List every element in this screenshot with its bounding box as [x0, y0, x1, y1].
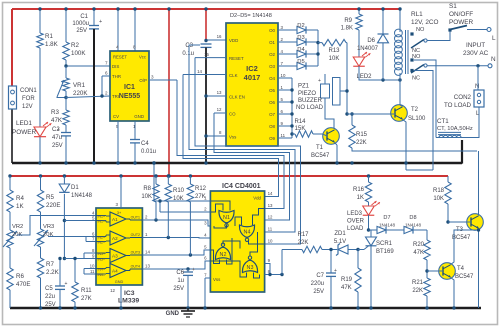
svg-text:R3: R3	[51, 109, 59, 116]
wire IC3 OUT1 to IC4 pin3	[142, 218, 210, 226]
svg-text:R6: R6	[16, 273, 24, 280]
wire D3 cathode to bus	[307, 41, 318, 43]
wire pole B to N line	[427, 64, 488, 67]
resistor R8	[141, 176, 159, 220]
svg-text:POWER: POWER	[449, 19, 474, 26]
wire CON2 L to CT1	[436, 107, 479, 138]
wire IC1 TRI from VR1 wiper	[66, 94, 110, 97]
wire IC1 THR stub	[102, 76, 110, 96]
svg-text:BUZZER: BUZZER	[298, 98, 323, 104]
wire D1 cathode column	[63, 194, 66, 260]
junction dots top rail	[38, 7, 401, 10]
wire +12V vertical feed x169	[168, 9, 170, 176]
svg-text:R5: R5	[46, 194, 54, 201]
svg-text:R20: R20	[413, 242, 425, 248]
svg-text:1K: 1K	[16, 203, 24, 210]
junction dots bottom rail	[39, 306, 190, 309]
resistor R21	[412, 269, 430, 309]
wire IC2 RESET stub	[195, 57, 226, 59]
relay contact NO-A	[410, 27, 425, 36]
wire D1 node to IC3 pin5	[64, 220, 96, 222]
wire IC2 O4-O9 bus	[278, 78, 294, 138]
wire IC3 pin10/11 stubs	[84, 269, 96, 275]
svg-text:14: 14	[197, 69, 202, 74]
wire ground riser right (CT1 secondary)	[461, 140, 463, 164]
wire VR3 wiper to IC3 pin6	[48, 236, 96, 238]
wire T3 emitter down	[478, 229, 480, 309]
svg-text:R12: R12	[195, 186, 207, 192]
wire IC2 CO stub	[214, 112, 226, 114]
svg-text:R17: R17	[297, 232, 309, 238]
svg-text:10: 10	[268, 239, 273, 244]
svg-text:RESET: RESET	[229, 56, 244, 61]
svg-text:L: L	[492, 35, 496, 42]
resistor R11	[72, 257, 92, 308]
wire T3 collector up	[478, 151, 480, 216]
svg-text:C6: C6	[176, 270, 184, 276]
wire C2 to ground	[65, 136, 67, 163]
svg-text:BC547: BC547	[455, 274, 474, 280]
svg-text:12V, 2CO: 12V, 2CO	[411, 19, 439, 26]
svg-text:CON1: CON1	[20, 88, 37, 94]
capacitor C6	[173, 267, 195, 308]
svg-text:1N4148: 1N4148	[405, 223, 422, 228]
wire coil bottom to T2 collector	[399, 75, 401, 105]
LED LED1	[12, 120, 51, 137]
wire IC2 output to D5	[278, 65, 297, 67]
svg-text:13: 13	[217, 90, 222, 95]
relay contact NO-B	[410, 54, 421, 62]
resistor R1	[37, 9, 59, 48]
svg-text:N4: N4	[244, 230, 251, 236]
svg-text:N: N	[475, 84, 479, 90]
wire NO-B to CT1	[414, 60, 436, 138]
wire D4 cathode to bus	[307, 53, 318, 55]
svg-text:12: 12	[268, 215, 273, 220]
wire IC4 pin1 from ground rail	[152, 161, 210, 201]
relay contact NC-A label	[412, 48, 420, 54]
svg-text:THR: THR	[112, 74, 121, 79]
svg-text:22K: 22K	[412, 288, 423, 294]
svg-text:T4: T4	[457, 266, 465, 272]
svg-text:O0: O0	[269, 28, 275, 33]
wire +12V mid rail (lower half)	[10, 175, 448, 177]
svg-text:Vss: Vss	[213, 277, 221, 282]
wire C4 to ground	[134, 143, 136, 163]
wire IC2 VDD stub	[204, 39, 226, 42]
wire bus V2 (IC2 CLK)	[183, 75, 279, 197]
svg-text:CLK: CLK	[229, 73, 238, 78]
svg-text:IN1–: IN1–	[98, 219, 105, 223]
svg-text:1000u: 1000u	[72, 21, 89, 27]
wire T4 base	[427, 270, 443, 272]
svg-text:2.2K: 2.2K	[46, 269, 60, 276]
resistor R4	[7, 176, 25, 212]
wire R15 to T3 collector line	[352, 148, 477, 151]
wire pole A to switch S1	[427, 31, 450, 41]
svg-text:OUT1: OUT1	[131, 216, 140, 220]
svg-text:PIEZO: PIEZO	[298, 91, 316, 97]
svg-text:R14: R14	[294, 119, 306, 125]
SCR SCR1	[366, 230, 395, 310]
svg-text:IN3–: IN3–	[98, 257, 105, 261]
wire bus V5 (IC2 CO)	[214, 113, 290, 220]
svg-text:22u: 22u	[45, 294, 55, 300]
svg-text:8: 8	[133, 45, 136, 50]
wire T2 collector	[400, 105, 403, 107]
svg-text:220K: 220K	[73, 90, 88, 97]
svg-text:GND: GND	[134, 114, 144, 119]
svg-text:CO: CO	[229, 112, 236, 117]
wire T2 emitter down	[403, 120, 407, 171]
svg-text:BC547: BC547	[452, 235, 471, 241]
svg-text:NC: NC	[412, 76, 420, 82]
terminal N circle	[488, 64, 492, 68]
svg-text:R21: R21	[412, 280, 424, 286]
svg-text:100K: 100K	[71, 50, 86, 57]
svg-text:27K: 27K	[81, 296, 92, 302]
wire IC1 GND pin to ground	[134, 121, 136, 140]
svg-text:N3: N3	[247, 265, 254, 271]
wire C5 node to IC3 pin9	[64, 258, 96, 260]
svg-text:25V: 25V	[45, 302, 56, 308]
svg-text:VR2: VR2	[12, 224, 23, 230]
svg-text:4: 4	[116, 45, 119, 50]
transistor Q2 T2	[391, 105, 426, 122]
resistor R20	[413, 230, 430, 271]
svg-text:220u: 220u	[311, 281, 324, 287]
wire ZD1 to R19/SCR gate	[348, 246, 369, 252]
svg-text:O3: O3	[269, 64, 275, 69]
svg-text:IC4 CD4001: IC4 CD4001	[222, 183, 261, 190]
relay RL1 coil	[395, 11, 439, 75]
wire IC4 pin7 Vss to ground	[203, 278, 210, 310]
wire VR1 wiper	[57, 96, 68, 99]
svg-text:CLK EN: CLK EN	[229, 95, 245, 100]
svg-text:NO LOAD: NO LOAD	[296, 105, 324, 111]
junction dots ground rail	[38, 161, 407, 164]
svg-text:O5: O5	[269, 88, 275, 93]
capacitor C5	[45, 257, 68, 308]
wire IC3 gnd pin12	[119, 285, 122, 310]
wire IC3 V+ pin3	[120, 176, 122, 208]
svg-text:230V AC: 230V AC	[463, 50, 489, 57]
svg-text:NE555: NE555	[119, 93, 141, 100]
svg-text:IN4–: IN4–	[98, 273, 105, 277]
wire IC3 pin7 stub	[86, 237, 96, 242]
svg-text:CT, 10A,50Hz: CT, 10A,50Hz	[437, 126, 473, 132]
wire IC2 CLK stub	[183, 74, 226, 76]
resistor R6	[7, 248, 31, 308]
LED LED2	[353, 52, 372, 80]
svg-text:10K: 10K	[329, 56, 340, 62]
svg-text:D6: D6	[367, 38, 375, 44]
switch S1	[448, 3, 491, 32]
resistor R5	[37, 176, 60, 212]
svg-text:+: +	[318, 78, 321, 84]
svg-text:20K: 20K	[43, 232, 53, 238]
svg-text:15K: 15K	[295, 126, 306, 132]
svg-text:LED1: LED1	[16, 120, 32, 127]
resistor R3	[51, 109, 69, 125]
relay contact arm B	[411, 64, 427, 73]
svg-text:OUT3: OUT3	[131, 251, 140, 255]
svg-text:22K: 22K	[298, 240, 309, 246]
svg-text:CV: CV	[113, 114, 119, 119]
svg-text:SL100: SL100	[408, 116, 426, 122]
LED LED3	[347, 201, 380, 232]
svg-text:47u: 47u	[52, 135, 62, 141]
wire LED3 to SCR node	[367, 215, 370, 232]
svg-text:IC2: IC2	[246, 64, 258, 73]
wire D5 cathode to bus	[307, 65, 318, 67]
svg-text:Vdd: Vdd	[253, 196, 261, 201]
svg-text:TO LOAD: TO LOAD	[444, 102, 472, 109]
svg-text:IN2+: IN2+	[98, 235, 106, 239]
resistor R19	[341, 250, 361, 310]
wire ground from CON1 pin2	[11, 109, 13, 163]
svg-text:R19: R19	[341, 277, 353, 283]
svg-text:10K: 10K	[141, 194, 152, 200]
wire R9 to LED2	[358, 30, 360, 57]
wire VR2 wiper to IC3 pin4	[17, 216, 96, 236]
svg-text:13: 13	[268, 203, 273, 208]
svg-text:D5: D5	[297, 59, 304, 65]
IC U2 CD4017	[197, 23, 286, 146]
zener diode ZD1	[334, 231, 348, 256]
svg-text:11: 11	[268, 227, 273, 232]
resistor R18	[433, 176, 451, 224]
svg-text:NO: NO	[416, 27, 425, 33]
svg-text:IN3+: IN3+	[98, 252, 106, 256]
svg-text:IC3: IC3	[124, 290, 135, 297]
wire IC4 pin2	[158, 199, 210, 212]
wire IC2 output to D4	[278, 53, 297, 55]
wire DIS node to IC1 pin7	[64, 64, 110, 67]
svg-text:O2: O2	[269, 52, 275, 57]
IC U1 NE555	[105, 45, 154, 130]
resistor R10	[165, 176, 185, 238]
junction dots mid red rail	[8, 174, 370, 177]
svg-text:1.8K: 1.8K	[341, 26, 353, 32]
svg-text:14: 14	[145, 250, 150, 255]
piezo buzzer PZ1	[296, 78, 340, 112]
svg-text:A3: A3	[112, 254, 118, 259]
diode D5	[297, 59, 306, 70]
svg-text:1N4007: 1N4007	[357, 46, 379, 52]
diode D7	[369, 215, 405, 234]
relay contact arm A	[411, 39, 427, 48]
svg-text:R11: R11	[81, 288, 92, 294]
svg-text:GND: GND	[115, 280, 124, 284]
svg-text:14: 14	[268, 191, 273, 196]
svg-text:+: +	[334, 268, 337, 274]
svg-text:25V: 25V	[52, 143, 63, 149]
label D2-D5 caption	[230, 13, 272, 19]
wire PZ1 right plate	[340, 89, 349, 92]
wire NC-B riser	[414, 71, 433, 171]
svg-text:RL1: RL1	[411, 11, 423, 18]
wire pin8 node to R17 line	[282, 250, 302, 275]
wire R13 to T2 base node	[345, 43, 348, 116]
resistor R7	[37, 247, 59, 308]
wire diode output bus	[316, 30, 319, 66]
resistor R13	[318, 39, 347, 62]
svg-text:10: 10	[90, 264, 95, 269]
IC U3 LM339	[90, 202, 151, 305]
svg-text:IC1: IC1	[124, 84, 135, 91]
svg-text:C7: C7	[316, 273, 324, 279]
svg-text:11: 11	[281, 133, 286, 138]
svg-text:+: +	[57, 127, 60, 133]
svg-text:O4: O4	[269, 76, 275, 81]
svg-text:+: +	[192, 267, 195, 273]
svg-text:OVER: OVER	[347, 219, 365, 225]
potentiometer VR3	[34, 212, 54, 247]
svg-text:R15: R15	[356, 132, 368, 138]
wire IC2 CLKEN to ground line	[204, 94, 226, 97]
svg-text:LED3: LED3	[347, 211, 363, 217]
svg-text:1.8K: 1.8K	[45, 41, 59, 48]
svg-text:0.1u: 0.1u	[182, 51, 194, 57]
transistor Q3 T3	[452, 214, 483, 241]
svg-text:BT169: BT169	[376, 249, 394, 255]
connector CON2	[444, 84, 484, 117]
svg-text:SCR1: SCR1	[376, 241, 393, 247]
wire LED1 to ground	[39, 137, 41, 163]
svg-text:ZD1: ZD1	[334, 231, 346, 237]
svg-text:25V: 25V	[76, 28, 87, 34]
svg-text:R2: R2	[71, 42, 79, 49]
svg-text:R18: R18	[433, 188, 445, 194]
diode D8	[404, 215, 427, 234]
svg-text:GND: GND	[166, 311, 180, 317]
wire IC1 OUT to bus	[149, 79, 177, 81]
svg-text:N2: N2	[220, 252, 227, 258]
svg-text:PZ1: PZ1	[298, 84, 310, 90]
svg-text:10K: 10K	[433, 196, 444, 202]
svg-text:4017: 4017	[244, 73, 261, 82]
svg-text:6: 6	[105, 71, 108, 76]
svg-text:D4: D4	[297, 47, 305, 53]
wire ground bottom rail	[10, 307, 481, 310]
svg-text:RESET: RESET	[113, 55, 127, 60]
svg-text:D8: D8	[409, 215, 416, 221]
diode D1	[59, 176, 93, 199]
svg-text:VDD: VDD	[229, 38, 238, 43]
diode D6	[357, 7, 389, 52]
wire N line to CON2	[477, 66, 479, 90]
svg-text:22K: 22K	[356, 140, 367, 146]
svg-text:S1: S1	[449, 3, 457, 10]
svg-text:R8: R8	[143, 186, 151, 192]
svg-text:VR3: VR3	[43, 224, 54, 230]
svg-text:R9: R9	[344, 18, 352, 24]
svg-text:DIS: DIS	[112, 64, 119, 69]
svg-text:0.01u: 0.01u	[141, 149, 156, 155]
resistor R14	[292, 119, 323, 137]
wire PZ1 to T1 collector	[325, 98, 334, 129]
wire C1 to ground (black)	[93, 29, 95, 163]
svg-text:O/P: O/P	[139, 78, 147, 83]
svg-text:+: +	[99, 19, 102, 25]
svg-text:D2: D2	[297, 23, 304, 29]
svg-text:VR1: VR1	[73, 82, 86, 89]
svg-text:3: 3	[151, 75, 154, 80]
svg-text:N1: N1	[223, 215, 230, 221]
wire IC1 pin8 to rail	[134, 9, 136, 51]
wire IC4 pin8 node	[265, 273, 284, 276]
svg-text:47K: 47K	[413, 250, 424, 256]
capacitor C4	[130, 140, 156, 156]
wire LED2 cathode to coil node	[359, 66, 402, 82]
svg-text:BC547: BC547	[311, 153, 330, 159]
svg-text:25V: 25V	[313, 289, 324, 295]
svg-text:1u: 1u	[177, 278, 184, 284]
wire ground mid rail	[12, 162, 462, 165]
wire bus V4 (IC2 RESET)	[195, 58, 301, 244]
svg-text:A1: A1	[112, 217, 118, 222]
svg-text:R13: R13	[328, 48, 340, 54]
svg-text:LOAD: LOAD	[347, 226, 364, 232]
wire IC3 OUT4 to IC4 pin6	[142, 261, 210, 271]
diode D4	[297, 47, 306, 58]
svg-text:R16: R16	[353, 187, 365, 193]
svg-text:10: 10	[281, 73, 286, 78]
wire T2 emitter to CT riser	[406, 169, 433, 171]
svg-text:ON/OFF: ON/OFF	[449, 11, 473, 18]
wire IC2 output to D2	[278, 29, 297, 31]
resistor R9	[341, 7, 363, 31]
svg-text:15: 15	[204, 52, 209, 57]
wire IC3 OUT2 to IC4 pin4	[142, 236, 210, 239]
svg-text:220E: 220E	[46, 202, 60, 209]
svg-text:47K: 47K	[51, 117, 63, 124]
wire T1 base	[323, 134, 328, 136]
wire IC2 Vss to ground line	[204, 134, 226, 164]
svg-text:NO: NO	[412, 54, 421, 60]
wire IC1 CV to ground	[117, 121, 119, 163]
wire T4 emitter down	[451, 278, 456, 310]
resistor R12	[187, 176, 206, 255]
svg-text:IN2–: IN2–	[98, 240, 105, 244]
wire +12V left drop to CON1	[11, 9, 13, 86]
transistor Q1 T1	[311, 128, 339, 159]
wire IC1 pin4 to rail	[117, 9, 119, 51]
current transformer CT1	[437, 118, 461, 138]
resistor R17	[282, 232, 337, 253]
svg-text:IN1+: IN1+	[98, 214, 106, 218]
svg-text:47K: 47K	[341, 285, 352, 291]
relay contact NC-B	[410, 69, 420, 82]
svg-text:R10: R10	[173, 188, 185, 194]
svg-text:O6: O6	[269, 100, 275, 105]
svg-text:D7: D7	[383, 215, 390, 221]
diode D2	[297, 23, 306, 34]
wire R1 to LED1	[39, 48, 41, 127]
IC U4 CD4001	[204, 183, 273, 292]
svg-text:5.1V: 5.1V	[334, 239, 346, 245]
svg-text:N: N	[491, 56, 496, 63]
wire relay coil feed from rail	[399, 9, 401, 30]
wire R2 to DIS node	[65, 60, 67, 66]
wire +12V vertical feed x206 (to IC2 VDD)	[205, 9, 207, 41]
svg-text:12: 12	[110, 288, 115, 293]
svg-text:R7: R7	[46, 261, 54, 268]
svg-text:O8: O8	[269, 124, 275, 129]
wire R3 to C2	[65, 125, 67, 132]
wire bus V1 (IC1 OUT)	[177, 80, 284, 209]
